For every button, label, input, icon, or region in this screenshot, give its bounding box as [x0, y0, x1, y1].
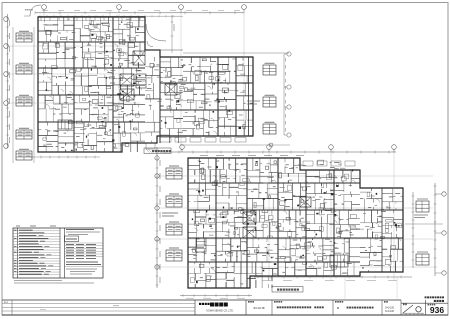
svg-text:93.10.18: 93.10.18 [254, 306, 265, 310]
top grid dimension line [35, 12, 244, 14]
caption box 1-2F [144, 148, 171, 154]
drawing name cell [335, 301, 343, 303]
legend/finish schedule table [13, 226, 103, 283]
caption box 3-5F [272, 287, 303, 293]
company cell KOWA SEKKEI [195, 300, 246, 315]
grid circle top x=119 [117, 5, 122, 10]
grid lines descending to title strip [180, 276, 412, 299]
svg-text:A-1: A-1 [4, 301, 8, 304]
unit label boxes left of lower plan [162, 166, 182, 261]
title block strip [2, 300, 448, 315]
left dimension line lower plan [146, 143, 160, 288]
grid circle near caption [155, 156, 159, 160]
project name cell [274, 301, 282, 303]
grid circle left y=46 [4, 44, 9, 49]
svg-text:936: 936 [430, 305, 444, 315]
stair/elevator shafts lower plan [159, 150, 433, 288]
top dimension line lower plan [160, 145, 396, 156]
unit label boxes left column [13, 27, 34, 163]
scale cell [384, 301, 388, 303]
leader arc top-left [30, 5, 41, 16]
left grid dimension line [7, 14, 9, 148]
stair/elevator shafts upper plan [10, 9, 290, 152]
right labels + dimension line lower plan [405, 183, 446, 276]
grid circle left y=74 [4, 72, 9, 77]
grid circle top x=181 [179, 5, 184, 10]
date cell [248, 301, 254, 303]
svg-text:KOWA SEKKEI CO.,LTD.: KOWA SEKKEI CO.,LTD. [207, 310, 234, 313]
grid circle top x=44 [42, 5, 47, 10]
grid circle left y=19 [4, 17, 9, 22]
approval text above title block [425, 296, 444, 298]
seal/approval cell [402, 300, 426, 315]
svg-text:S=1/100: S=1/100 [385, 310, 395, 313]
grid circle left y=146 [4, 144, 9, 149]
grid circle left y=103 [4, 101, 9, 106]
drawing number 936 [428, 304, 436, 306]
revision row marks [40, 306, 119, 310]
right boundary + labels upper plan [183, 52, 291, 137]
grid circle top x=244 [242, 5, 247, 10]
